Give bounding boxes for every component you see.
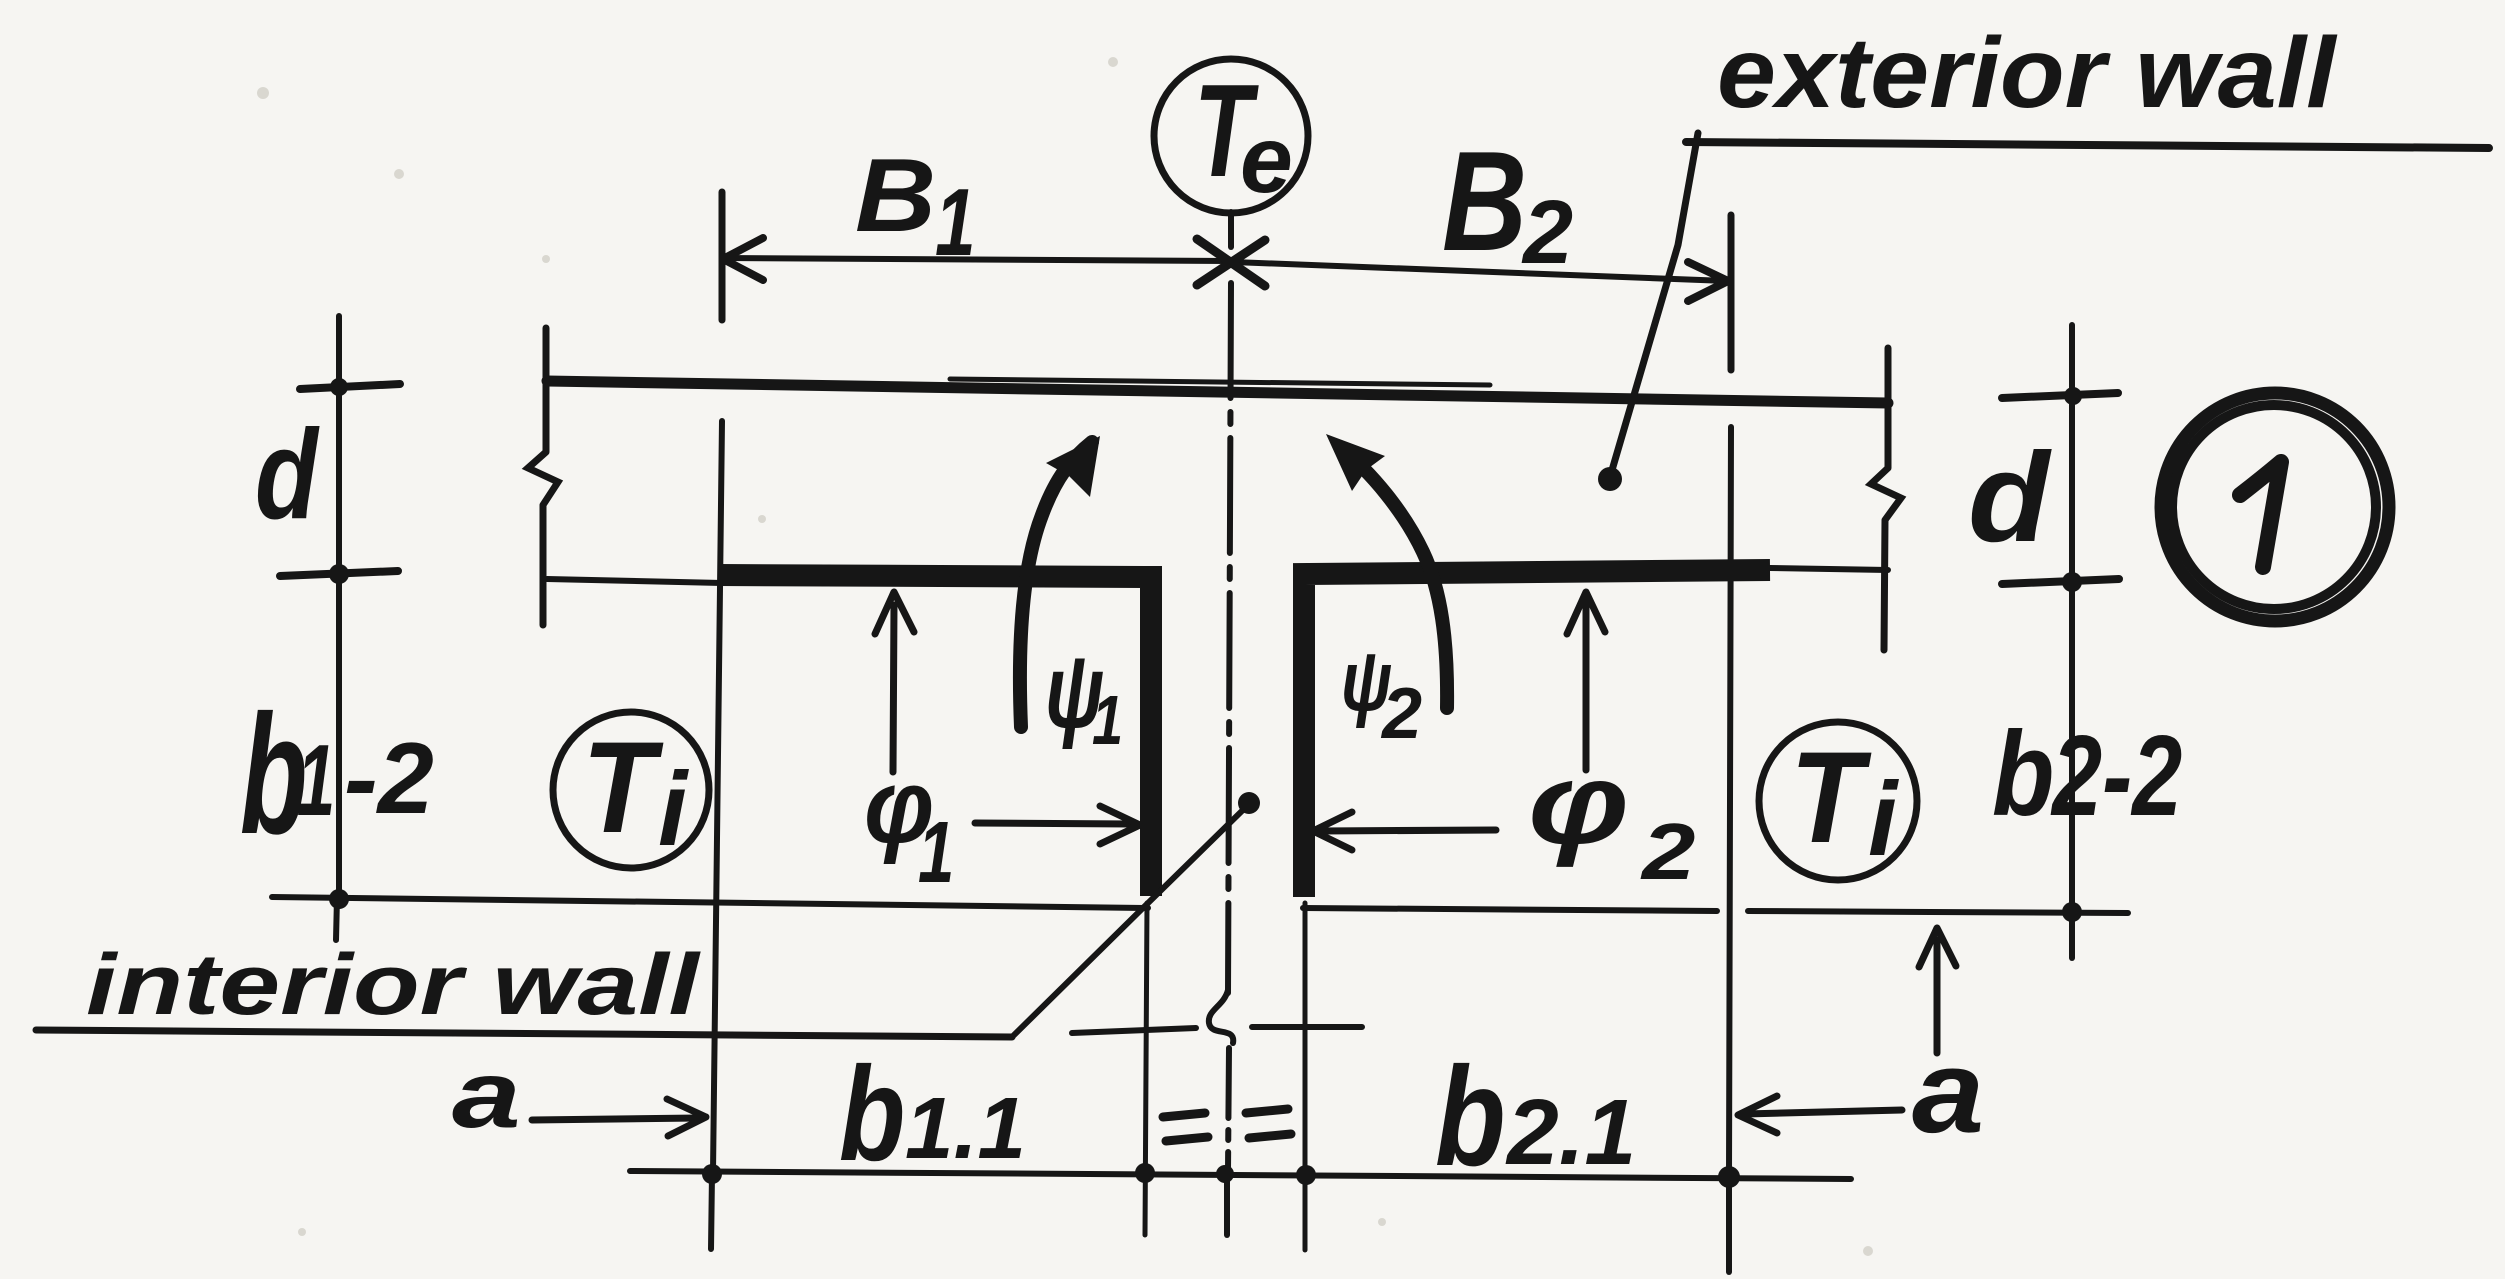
right dimension line x=2072 (d and b2-2) <box>2069 325 2075 910</box>
svg-text:B: B <box>1442 122 1527 281</box>
phi2 horizontal arrow <box>1320 830 1496 831</box>
left dimension line x=339 (d and b1-2) <box>336 316 342 897</box>
svg-text:a: a <box>1912 1026 1984 1157</box>
psi1 arrowhead <box>1046 436 1100 497</box>
svg-text:2: 2 <box>1521 183 1573 283</box>
phi1 horizontal arrow <box>975 823 1132 824</box>
psi1 curved arrow <box>1020 442 1092 727</box>
bottom stubs <box>711 1174 712 1249</box>
dot on right dim line at d bottom <box>2062 572 2082 592</box>
a left arrow <box>532 1118 698 1120</box>
left tick at top of d <box>300 384 400 389</box>
svg-text:2: 2 <box>1380 674 1422 754</box>
left tick at bottom of d <box>280 571 398 576</box>
svg-text:1.1: 1.1 <box>905 1080 1026 1177</box>
psi2 curved arrow <box>1340 447 1447 708</box>
svg-text:b: b <box>839 1039 905 1188</box>
equals mark left <box>1163 1113 1208 1141</box>
svg-text:1: 1 <box>935 169 976 276</box>
phi1 vertical arrow <box>893 605 894 772</box>
B1 left tick <box>719 192 726 320</box>
svg-text:1: 1 <box>918 804 954 901</box>
B1 dimension line <box>724 258 1229 261</box>
centerline dash-dot lower <box>1228 1048 1229 1170</box>
a right arrow <box>1745 1110 1902 1114</box>
dot on right chain line <box>2062 902 2082 922</box>
stub below Te circle <box>1228 212 1234 247</box>
long vertical b2.1 right edge x=1731..1729 <box>1729 427 1731 1175</box>
Ti circle right <box>1759 722 1917 880</box>
paper specks <box>257 87 269 99</box>
interior wall right face + exterior wall inner face thick right (thick L) <box>1304 570 1770 897</box>
dot on left dim line at d top <box>330 378 348 396</box>
dot on left dim line bottom <box>329 889 349 909</box>
svg-text:1: 1 <box>297 725 335 837</box>
svg-text:i: i <box>1868 761 1899 878</box>
short dim line above b1.1/b2.1 with jog <box>1072 1027 1362 1033</box>
dot on left dim line at d bottom <box>329 564 349 584</box>
svg-text:interior wall: interior wall <box>86 936 701 1032</box>
Ti circle left <box>553 712 709 868</box>
svg-text:2: 2 <box>1640 807 1696 897</box>
numeral 1 inside section circle <box>2240 462 2281 567</box>
psi2 arrowhead <box>1326 434 1385 491</box>
exterior wall leader line <box>1610 133 1698 477</box>
svg-text:T: T <box>582 715 664 860</box>
centerline bottom stub <box>1224 1177 1230 1235</box>
exterior wall label underline <box>1686 142 2489 148</box>
svg-text:2-2: 2-2 <box>2050 712 2182 840</box>
B2 right tick <box>1728 215 1735 370</box>
interior wall label underline <box>36 1030 1012 1037</box>
section mark circled 1 (double circle) <box>2161 393 2389 621</box>
centerline jog break <box>1209 990 1233 1043</box>
B2 dimension line <box>1233 262 1727 281</box>
right chain line at wall bottom <box>1303 908 2128 913</box>
svg-text:b: b <box>1435 1038 1506 1195</box>
svg-text:a: a <box>452 1042 521 1148</box>
exterior wall leader dot <box>1598 467 1622 491</box>
right tick at bottom of d <box>2002 579 2119 584</box>
equals mark right <box>1246 1109 1291 1138</box>
exterior wall inner face thin segment right <box>1770 568 1888 570</box>
svg-text:-2: -2 <box>344 723 434 835</box>
exterior wall inner face thin segment left <box>547 579 722 583</box>
phi2 vertical arrow <box>1583 603 1590 770</box>
left chain line at wall bottom <box>272 897 1148 908</box>
interior wall right face thin extension below <box>1303 903 1308 1250</box>
svg-text:φ: φ <box>1528 739 1629 868</box>
svg-text:2.1: 2.1 <box>1505 1080 1636 1184</box>
exterior wall inner face thick left + interior wall left face (thick L) <box>718 575 1151 896</box>
left dim line bottom stub <box>336 897 337 940</box>
interior wall leader dot <box>1238 792 1260 814</box>
right dim line bottom stub <box>2069 912 2075 958</box>
long vertical b1.1 left edge x=722..712 <box>713 421 722 1172</box>
B1 arrowhead <box>723 238 763 280</box>
exterior wall outer face line <box>547 381 1888 403</box>
interior wall left face thin extension below <box>1145 903 1147 1235</box>
svg-text:d: d <box>1968 426 2052 568</box>
centerline dash-dot upper <box>1228 283 1231 993</box>
Te circle <box>1154 59 1308 213</box>
dot on right dim line at d top <box>2064 387 2082 405</box>
svg-text:1: 1 <box>1092 682 1123 759</box>
a right vertical arrow <box>1934 940 1941 1053</box>
X mark at B1/B2 junction <box>1197 239 1265 286</box>
bottom dim dots <box>702 1164 722 1184</box>
svg-text:i: i <box>658 751 689 868</box>
right tick at top of d <box>2002 393 2118 398</box>
svg-text:exterior wall: exterior wall <box>1717 17 2338 129</box>
right wall-end break line x=1887 <box>1871 348 1901 650</box>
left wall-end break line x=545 <box>528 328 558 625</box>
B2 arrowhead <box>1688 262 1728 301</box>
svg-text:e: e <box>1240 107 1293 213</box>
interior wall leader line <box>1012 806 1247 1037</box>
svg-text:d: d <box>255 404 320 546</box>
svg-text:b: b <box>1992 706 2054 841</box>
svg-text:T: T <box>1790 725 1872 870</box>
exterior wall outer face doubled stroke <box>950 379 1490 385</box>
svg-text:B: B <box>855 137 936 253</box>
bottom dimension line <box>630 1171 1851 1179</box>
